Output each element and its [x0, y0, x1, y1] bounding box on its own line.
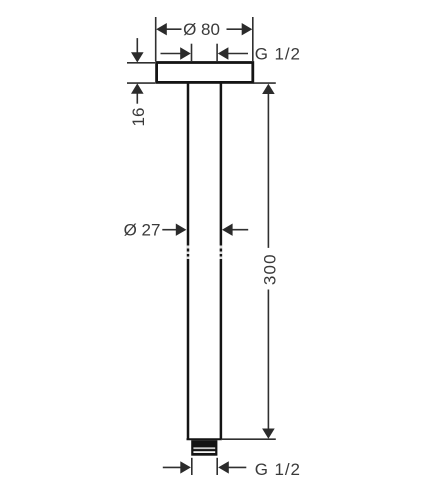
- pipe bottom shoulder: [187, 438, 222, 440]
- G1/2 top left arrow: [180, 47, 191, 59]
- bottom G1/2 left arrow: [180, 461, 191, 473]
- ceiling flange plate (top view side profile): [157, 63, 253, 83]
- pipe right wall: [220, 83, 223, 440]
- watermark gaps on pipe walls: [187, 246, 223, 260]
- O80 right arrow: [242, 23, 253, 35]
- 300 ext bottom: [222, 438, 276, 440]
- O80 left arrow: [156, 23, 167, 35]
- svg-text:Ø 80: Ø 80: [183, 20, 220, 39]
- O80 extension lines: [155, 17, 157, 61]
- svg-text:16: 16: [129, 108, 148, 127]
- O27 left arrow: [176, 224, 187, 236]
- 300 up arrow: [262, 84, 275, 94]
- bottom thread block G1/2: [191, 440, 217, 456]
- 300 stems: [267, 93, 269, 248]
- 16 extension lines: [127, 62, 155, 64]
- dimension graphics: [127, 17, 276, 475]
- svg-text:G 1/2: G 1/2: [255, 460, 301, 479]
- 300 ext top: [254, 82, 276, 84]
- 16 arrow stems: [136, 38, 138, 53]
- O80 dim stems: [165, 28, 182, 30]
- 16 down arrow: [131, 52, 144, 62]
- bottom G1/2 right arrow: [218, 461, 229, 473]
- G1/2 top ticks: [191, 44, 193, 62]
- G1/2 top right arrow: [218, 47, 229, 59]
- bottom G1/2 stems: [163, 466, 182, 468]
- pipe left wall: [187, 83, 190, 440]
- svg-text:Ø 27: Ø 27: [124, 221, 161, 240]
- O27 right arrow: [222, 224, 233, 236]
- svg-text:G 1/2: G 1/2: [255, 45, 301, 64]
- G1/2 top stems: [161, 53, 183, 55]
- 16 up arrow: [131, 83, 144, 93]
- svg-text:300: 300: [261, 253, 280, 285]
- arrowheads: [131, 23, 275, 474]
- O27 stems: [162, 229, 177, 231]
- 300 down arrow: [262, 429, 275, 439]
- bottom G1/2 ext lines: [191, 458, 193, 475]
